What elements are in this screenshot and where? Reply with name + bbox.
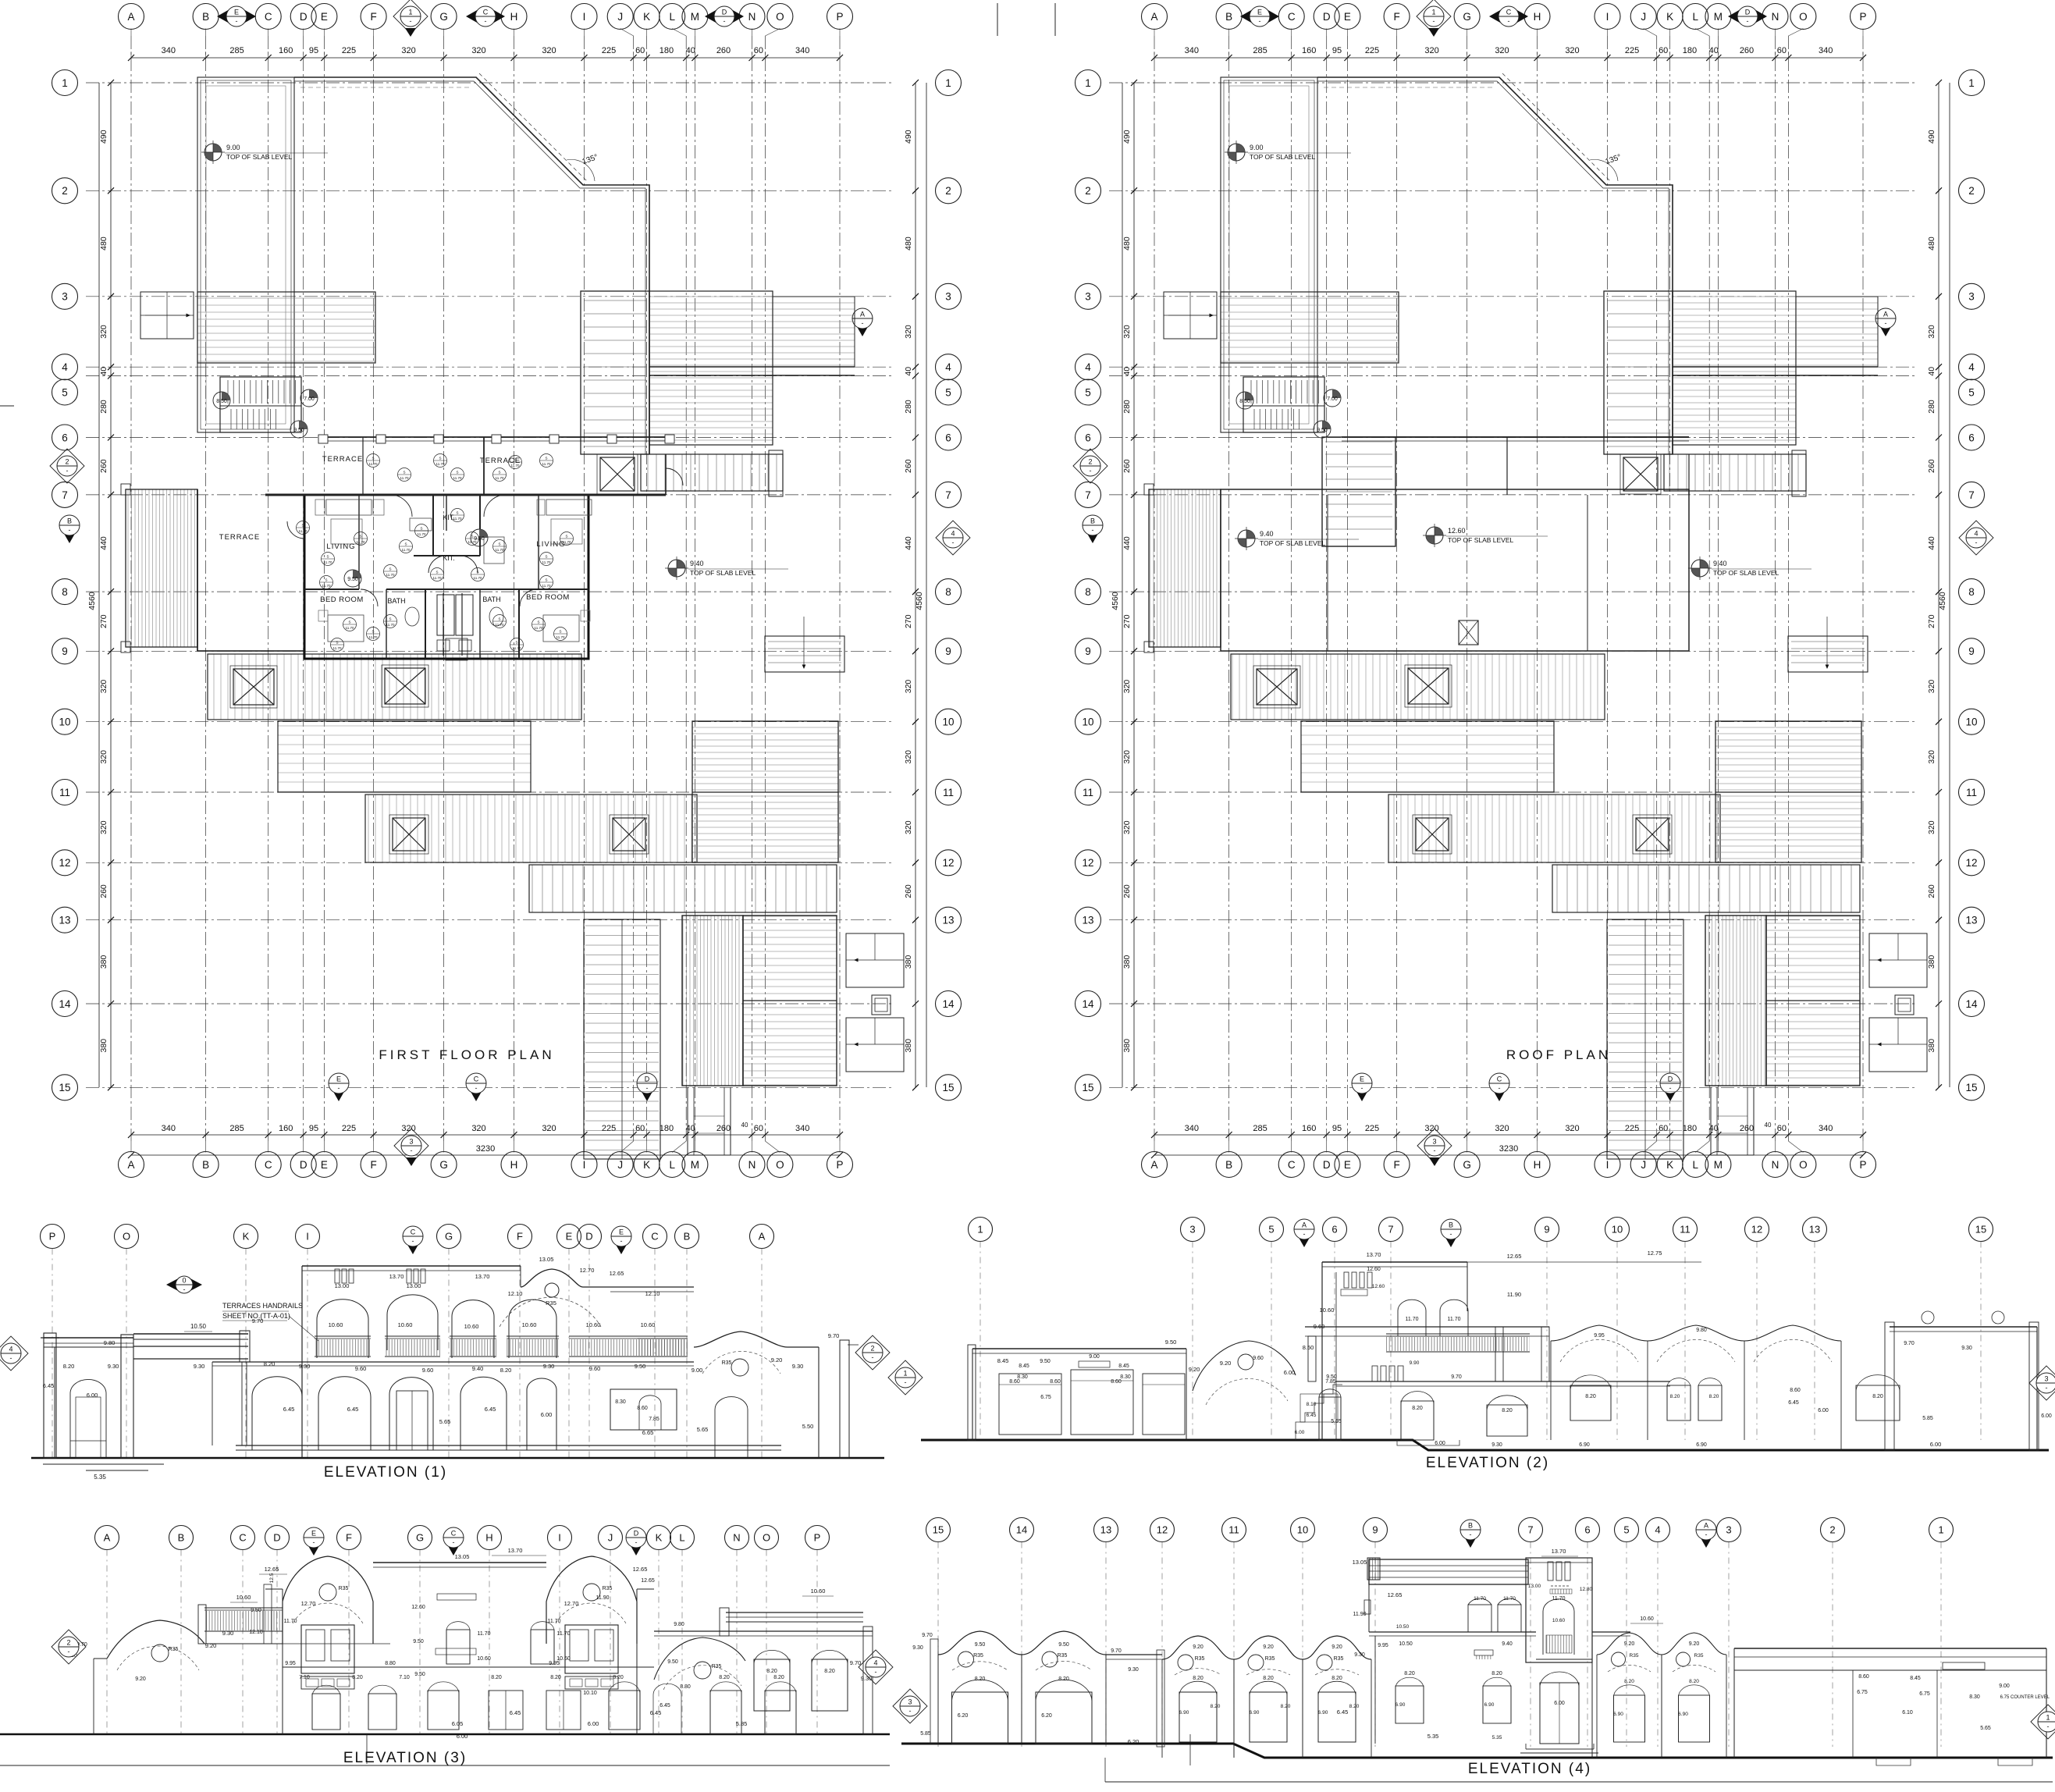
svg-text:-: - bbox=[2046, 1384, 2048, 1392]
svg-text:8.20: 8.20 bbox=[766, 1669, 777, 1674]
svg-text:12.75: 12.75 bbox=[1648, 1250, 1662, 1257]
svg-text:2: 2 bbox=[1088, 458, 1092, 466]
svg-text:8.20: 8.20 bbox=[1689, 1679, 1699, 1684]
svg-text:225: 225 bbox=[1625, 1124, 1639, 1133]
svg-text:ELEVATION (1): ELEVATION (1) bbox=[324, 1464, 447, 1481]
svg-text:8.20: 8.20 bbox=[1502, 1408, 1513, 1413]
dimension texts (elevation 4) bbox=[1128, 1708, 1439, 1745]
svg-text:6.75: 6.75 bbox=[1857, 1690, 1868, 1695]
svg-text:I: I bbox=[558, 1532, 561, 1544]
svg-text:8.20: 8.20 bbox=[491, 1675, 502, 1680]
svg-text:B: B bbox=[1090, 517, 1095, 525]
svg-text:9.70: 9.70 bbox=[1904, 1341, 1915, 1346]
svg-text:2: 2 bbox=[65, 458, 69, 466]
svg-text:9.50: 9.50 bbox=[1165, 1339, 1177, 1346]
apartment outer wall (first floor plan) bbox=[197, 454, 666, 659]
level circle 9.50 bedroom (first floor plan) bbox=[344, 570, 361, 587]
svg-text:D: D bbox=[1323, 1159, 1331, 1171]
svg-text:260: 260 bbox=[99, 459, 108, 473]
svg-text:8.20: 8.20 bbox=[1624, 1679, 1634, 1684]
living furniture east (first floor plan) bbox=[537, 500, 592, 544]
svg-text:5: 5 bbox=[1268, 1224, 1274, 1236]
left pilaster (elevation 1) bbox=[41, 1333, 59, 1458]
svg-text:2: 2 bbox=[1968, 185, 1975, 197]
stair level circle 8.50 (roof plan) bbox=[1236, 392, 1253, 409]
svg-text:-: - bbox=[1508, 17, 1510, 25]
svg-text:10.50: 10.50 bbox=[1396, 1624, 1410, 1630]
svg-text:11.70: 11.70 bbox=[284, 1619, 297, 1624]
left dimension lines (first floor plan) bbox=[87, 80, 114, 1090]
svg-text:14: 14 bbox=[59, 998, 71, 1010]
right block (elevation 2) bbox=[1885, 1311, 2052, 1450]
west terrace rows3-4 hatch (roof plan) bbox=[1221, 292, 1399, 363]
slab line (elevation 3) bbox=[283, 1661, 654, 1667]
svg-text:320: 320 bbox=[99, 680, 108, 694]
svg-text:260: 260 bbox=[1740, 1124, 1754, 1133]
svg-text:S: S bbox=[403, 471, 405, 475]
svg-text:380: 380 bbox=[904, 955, 913, 969]
svg-text:320: 320 bbox=[471, 1124, 485, 1133]
svg-text:480: 480 bbox=[99, 236, 108, 251]
svg-text:G: G bbox=[439, 11, 448, 23]
north-east band hatch (roof plan) bbox=[1796, 297, 1878, 367]
centre parapet (elevation 3) bbox=[373, 1547, 546, 1567]
svg-text:9: 9 bbox=[945, 645, 951, 657]
svg-text:11.70: 11.70 bbox=[535, 626, 543, 630]
svg-text:10: 10 bbox=[1082, 716, 1093, 728]
centre block parapet (elevation 1) bbox=[302, 1266, 521, 1458]
svg-text:-: - bbox=[1470, 1531, 1472, 1538]
svg-text:11.70: 11.70 bbox=[418, 532, 426, 536]
svg-text:13.05: 13.05 bbox=[539, 1256, 554, 1263]
svg-text:10: 10 bbox=[1612, 1224, 1623, 1236]
2F arch bay 3 (elevation 1) bbox=[452, 1300, 494, 1358]
svg-text:5.85: 5.85 bbox=[736, 1720, 748, 1727]
svg-text:8.20: 8.20 bbox=[63, 1363, 75, 1370]
svg-text:6.75: 6.75 bbox=[1919, 1691, 1930, 1697]
mid bay window 2 (elevation 4) bbox=[1250, 1676, 1291, 1742]
svg-text:11.70: 11.70 bbox=[453, 476, 462, 480]
svg-text:A: A bbox=[1883, 311, 1888, 318]
svg-text:L: L bbox=[1692, 11, 1698, 23]
room label BATH west (first floor plan) bbox=[387, 597, 405, 605]
svg-text:11.70: 11.70 bbox=[402, 548, 411, 552]
svg-text:320: 320 bbox=[1565, 46, 1579, 55]
svg-text:M: M bbox=[691, 1159, 699, 1171]
svg-text:9.20: 9.20 bbox=[1189, 1366, 1200, 1373]
left dimension lines (roof plan) bbox=[1111, 80, 1137, 1090]
svg-text:3: 3 bbox=[1189, 1224, 1195, 1236]
svg-text:8.30: 8.30 bbox=[1017, 1374, 1028, 1380]
level marker 9.40 (first floor plan) bbox=[665, 556, 788, 580]
section marker E bottom (first floor plan) bbox=[329, 1073, 349, 1101]
row grid lines (roof plan) bbox=[1109, 83, 1918, 1087]
svg-text:11.70: 11.70 bbox=[299, 529, 308, 533]
svg-text:9.30: 9.30 bbox=[1491, 1442, 1502, 1448]
svg-text:8.20: 8.20 bbox=[550, 1675, 561, 1680]
left block windows (elevation 2) bbox=[999, 1354, 1185, 1435]
tower mid slab (elevation 4) bbox=[1369, 1616, 1663, 1659]
svg-text:ELEVATION (2): ELEVATION (2) bbox=[1426, 1455, 1549, 1471]
svg-text:F: F bbox=[370, 11, 376, 23]
svg-text:S: S bbox=[545, 457, 547, 460]
svg-text:11.70: 11.70 bbox=[357, 540, 365, 544]
left edge labels (elevation 4) bbox=[912, 1633, 938, 1744]
svg-text:8.20: 8.20 bbox=[1412, 1406, 1423, 1411]
svg-text:13.70: 13.70 bbox=[1367, 1251, 1381, 1258]
svg-text:4: 4 bbox=[945, 361, 951, 373]
small tower door (elevation 2) bbox=[1319, 1379, 1342, 1440]
section marker C bottom (first floor plan) bbox=[466, 1073, 486, 1101]
svg-text:11.70: 11.70 bbox=[433, 576, 442, 580]
svg-text:-: - bbox=[620, 1237, 623, 1245]
top-centre block outer wall (first floor plan) bbox=[294, 77, 649, 454]
svg-text:9: 9 bbox=[1085, 645, 1091, 657]
terrace slab line (elevation 1) bbox=[212, 1362, 694, 1366]
svg-text:60: 60 bbox=[635, 46, 645, 55]
svg-text:320: 320 bbox=[1424, 46, 1438, 55]
west terrace arm rows7-9 (first floor plan) bbox=[121, 484, 197, 652]
svg-text:6.00: 6.00 bbox=[1284, 1369, 1296, 1376]
svg-text:11.70: 11.70 bbox=[324, 560, 332, 564]
svg-text:S: S bbox=[372, 630, 374, 634]
svg-text:6.45: 6.45 bbox=[1307, 1413, 1317, 1418]
east stair rows8-9 (first floor plan) bbox=[765, 617, 844, 672]
svg-text:380: 380 bbox=[1927, 955, 1936, 969]
svg-text:8.20: 8.20 bbox=[1331, 1676, 1342, 1681]
svg-text:6.45: 6.45 bbox=[1337, 1708, 1349, 1716]
svg-text:A: A bbox=[1150, 1159, 1157, 1171]
svg-text:5.85: 5.85 bbox=[1922, 1416, 1933, 1421]
section marker 4 right (first floor plan) bbox=[936, 521, 970, 555]
svg-text:P: P bbox=[836, 11, 843, 23]
south band rows11-12 (roof plan) bbox=[1388, 795, 1720, 862]
main stair rows5-6 (first floor plan) bbox=[220, 377, 301, 432]
svg-text:9.40: 9.40 bbox=[1260, 530, 1274, 538]
svg-text:D: D bbox=[1745, 9, 1751, 16]
svg-text:13.00: 13.00 bbox=[407, 1282, 421, 1289]
svg-text:9.30: 9.30 bbox=[792, 1363, 804, 1370]
external stair A row3 (first floor plan) bbox=[140, 292, 194, 339]
svg-text:11: 11 bbox=[1083, 787, 1093, 798]
centre dashes (elevation 3) bbox=[411, 1594, 476, 1655]
svg-text:10.10: 10.10 bbox=[583, 1691, 597, 1696]
svg-text:7.00: 7.00 bbox=[304, 396, 315, 402]
svg-text:9.20: 9.20 bbox=[205, 1642, 217, 1649]
right bay window 1 (elevation 4) bbox=[1613, 1679, 1644, 1742]
svg-text:E: E bbox=[1360, 1076, 1364, 1083]
svg-text:8.60: 8.60 bbox=[1009, 1379, 1020, 1385]
svg-text:60: 60 bbox=[754, 46, 763, 55]
svg-text:270: 270 bbox=[1927, 614, 1936, 628]
svg-text:280: 280 bbox=[99, 400, 108, 414]
svg-text:R35: R35 bbox=[603, 1586, 613, 1591]
svg-text:1: 1 bbox=[977, 1224, 983, 1236]
svg-text:5: 5 bbox=[1968, 386, 1975, 398]
svg-text:9.70: 9.70 bbox=[850, 1659, 862, 1666]
svg-text:J: J bbox=[608, 1532, 613, 1544]
bevel dashed line (roof plan) bbox=[1502, 73, 1610, 181]
svg-text:13: 13 bbox=[1100, 1524, 1111, 1536]
arcade windows (elevation 2) bbox=[1570, 1375, 1900, 1448]
svg-text:40: 40 bbox=[686, 46, 695, 55]
svg-text:12: 12 bbox=[1082, 857, 1093, 869]
section marker A right (roof plan) bbox=[1875, 308, 1896, 336]
GF centre door (elevation 1) bbox=[396, 1391, 428, 1450]
svg-text:I: I bbox=[583, 11, 586, 23]
section marker C top (first floor plan) bbox=[466, 6, 505, 27]
south band rows9-10 (first floor plan) bbox=[208, 654, 581, 720]
svg-text:2: 2 bbox=[1085, 185, 1091, 197]
section marker B left (first floor plan) bbox=[59, 515, 80, 543]
left marker 3 (elevation 4) bbox=[893, 1689, 927, 1723]
mid bay window 1 (elevation 4) bbox=[1179, 1676, 1221, 1742]
svg-text:-: - bbox=[905, 1378, 907, 1386]
svg-text:9.30: 9.30 bbox=[299, 1363, 311, 1370]
svg-text:A: A bbox=[759, 1231, 766, 1243]
row4-5 slab edge (roof plan) bbox=[1673, 367, 1878, 375]
svg-text:I: I bbox=[306, 1231, 309, 1243]
svg-text:D: D bbox=[722, 9, 727, 16]
svg-text:11.70: 11.70 bbox=[369, 462, 378, 466]
svg-text:TOP OF SLAB LEVEL: TOP OF SLAB LEVEL bbox=[226, 153, 293, 161]
svg-text:12.65: 12.65 bbox=[641, 1578, 655, 1584]
svg-text:11.70: 11.70 bbox=[548, 1619, 561, 1624]
title ELEVATION (3) bbox=[343, 1750, 467, 1766]
svg-text:9.20: 9.20 bbox=[1193, 1644, 1203, 1650]
svg-text:12.10: 12.10 bbox=[249, 1630, 263, 1635]
stair flight I-J rows3-6 (first floor plan) bbox=[581, 291, 649, 454]
svg-text:225: 225 bbox=[1625, 46, 1639, 55]
svg-text:E: E bbox=[311, 1530, 316, 1538]
svg-text:11.70: 11.70 bbox=[542, 462, 551, 466]
roof slab edges (roof plan) bbox=[1221, 454, 1689, 651]
svg-text:5.50: 5.50 bbox=[802, 1423, 814, 1430]
svg-text:40: 40 bbox=[1765, 1122, 1772, 1129]
svg-text:12: 12 bbox=[1157, 1524, 1168, 1536]
svg-text:E: E bbox=[1344, 1159, 1351, 1171]
svg-text:-: - bbox=[475, 1084, 478, 1092]
svg-text:7.85: 7.85 bbox=[649, 1417, 660, 1422]
svg-text:11: 11 bbox=[1966, 787, 1977, 798]
right marker 1 (elevation 4) bbox=[2031, 1705, 2055, 1739]
svg-text:15: 15 bbox=[1975, 1224, 1986, 1236]
right arch bay 1 (elevation 4) bbox=[1597, 1633, 1662, 1758]
svg-text:10.60: 10.60 bbox=[1552, 1618, 1566, 1623]
svg-text:8.50: 8.50 bbox=[1239, 399, 1250, 404]
svg-text:3: 3 bbox=[409, 1138, 413, 1146]
svg-text:4: 4 bbox=[1085, 361, 1091, 373]
title FIRST FLOOR PLAN bbox=[379, 1047, 554, 1062]
svg-text:R35: R35 bbox=[1630, 1653, 1639, 1659]
svg-text:S: S bbox=[325, 578, 327, 582]
svg-text:320: 320 bbox=[99, 750, 108, 764]
section marker D top (first floor plan) bbox=[705, 6, 744, 27]
svg-text:13.70: 13.70 bbox=[508, 1547, 523, 1554]
svg-text:9.40: 9.40 bbox=[1502, 1641, 1513, 1647]
svg-text:4560: 4560 bbox=[1938, 592, 1947, 610]
right marker 2 (elevation 1) bbox=[855, 1335, 890, 1370]
svg-text:380: 380 bbox=[1122, 1039, 1132, 1053]
main stair rows5-6 (roof plan) bbox=[1243, 377, 1324, 432]
svg-text:320: 320 bbox=[99, 820, 108, 834]
column grid lines (first floor plan) bbox=[131, 36, 840, 1141]
svg-text:9: 9 bbox=[1968, 645, 1975, 657]
shaft X rows11-12 east (roof plan) bbox=[1633, 815, 1672, 854]
svg-text:9.30: 9.30 bbox=[912, 1645, 923, 1651]
grid bubbles (elevation 3) bbox=[95, 1526, 830, 1735]
svg-text:9.50: 9.50 bbox=[414, 1672, 425, 1677]
svg-text:13.70: 13.70 bbox=[475, 1273, 490, 1280]
svg-text:-: - bbox=[10, 1354, 12, 1362]
svg-text:15: 15 bbox=[59, 1082, 70, 1093]
svg-text:8.20: 8.20 bbox=[1670, 1394, 1680, 1399]
GF arch 4 (elevation 1) bbox=[460, 1377, 507, 1450]
east room rows10-12 (first floor plan) bbox=[692, 721, 838, 862]
svg-text:225: 225 bbox=[602, 1124, 616, 1133]
svg-text:I: I bbox=[583, 1159, 586, 1171]
svg-text:340: 340 bbox=[1185, 1124, 1199, 1133]
svg-text:13: 13 bbox=[1809, 1224, 1820, 1236]
right arched gable (elevation 1) bbox=[694, 1332, 819, 1376]
svg-text:6.90: 6.90 bbox=[1696, 1442, 1707, 1448]
svg-text:320: 320 bbox=[1495, 1124, 1509, 1133]
svg-text:1: 1 bbox=[1938, 1524, 1943, 1536]
svg-text:320: 320 bbox=[542, 1124, 556, 1133]
svg-text:10.60: 10.60 bbox=[586, 1321, 601, 1328]
svg-text:12.60: 12.60 bbox=[1372, 1284, 1385, 1289]
svg-text:490: 490 bbox=[1122, 130, 1132, 144]
svg-text:H: H bbox=[510, 1159, 518, 1171]
svg-text:9.70: 9.70 bbox=[252, 1317, 264, 1324]
svg-text:-: - bbox=[1669, 1084, 1672, 1092]
equipment box 1 (first floor plan) bbox=[846, 933, 904, 987]
svg-text:285: 285 bbox=[1253, 46, 1267, 55]
svg-text:10.60: 10.60 bbox=[329, 1321, 343, 1328]
2F balustrade 3 (elevation 1) bbox=[450, 1336, 496, 1356]
svg-text:4: 4 bbox=[1974, 530, 1978, 538]
svg-text:0: 0 bbox=[182, 1277, 186, 1285]
svg-text:O: O bbox=[1799, 1159, 1808, 1171]
svg-text:180: 180 bbox=[1683, 1124, 1697, 1133]
roof terrace parapet row6 (roof plan) bbox=[1342, 437, 1689, 441]
left bay window 2 (elevation 4) bbox=[1036, 1676, 1092, 1744]
svg-text:9.60: 9.60 bbox=[589, 1365, 601, 1372]
svg-text:-: - bbox=[1433, 17, 1435, 25]
svg-text:11.70: 11.70 bbox=[496, 476, 504, 480]
svg-text:6.45: 6.45 bbox=[660, 1703, 670, 1708]
bevel dashed line (first floor plan) bbox=[479, 73, 587, 181]
svg-text:6.45: 6.45 bbox=[485, 1406, 496, 1413]
svg-text:10.50: 10.50 bbox=[1399, 1641, 1413, 1647]
kitchen counters (first floor plan) bbox=[410, 518, 504, 564]
svg-text:14: 14 bbox=[1082, 998, 1094, 1010]
svg-text:9.90: 9.90 bbox=[1410, 1360, 1420, 1366]
svg-text:B: B bbox=[1449, 1221, 1453, 1229]
svg-text:7.10: 7.10 bbox=[299, 1675, 310, 1680]
svg-text:13: 13 bbox=[59, 915, 70, 926]
tower box (elevation 4) bbox=[1526, 1548, 1593, 1662]
east room rows10-12 (roof plan) bbox=[1715, 721, 1861, 862]
svg-text:A: A bbox=[127, 11, 134, 23]
svg-text:15: 15 bbox=[933, 1524, 944, 1536]
svg-text:8: 8 bbox=[62, 586, 68, 598]
svg-text:8.30: 8.30 bbox=[1969, 1694, 1980, 1700]
svg-text:160: 160 bbox=[1302, 46, 1316, 55]
centre window 1 (elevation 3) bbox=[446, 1622, 491, 1664]
svg-text:-: - bbox=[1885, 319, 1887, 327]
svg-text:8.20: 8.20 bbox=[824, 1669, 835, 1674]
svg-text:6.20: 6.20 bbox=[958, 1713, 969, 1719]
svg-text:95: 95 bbox=[309, 46, 318, 55]
right windows (elevation 3) bbox=[754, 1650, 848, 1711]
svg-text:8.20: 8.20 bbox=[975, 1676, 986, 1682]
svg-text:9: 9 bbox=[1372, 1524, 1378, 1536]
svg-text:C: C bbox=[474, 1076, 479, 1083]
svg-text:4560: 4560 bbox=[87, 592, 97, 610]
svg-text:11.70: 11.70 bbox=[542, 584, 551, 588]
section marker 2 left (roof plan) bbox=[1073, 449, 1107, 483]
svg-text:440: 440 bbox=[904, 536, 913, 550]
room label KIT lower (first floor plan) bbox=[443, 554, 455, 562]
svg-text:8.20: 8.20 bbox=[1193, 1676, 1203, 1681]
svg-text:440: 440 bbox=[99, 536, 108, 550]
svg-text:60: 60 bbox=[1777, 46, 1787, 55]
marker 0 above pergola (elevation 1) bbox=[166, 1276, 202, 1293]
svg-text:C: C bbox=[451, 1530, 457, 1538]
tower balcony band (elevation 2) bbox=[1305, 1327, 1549, 1381]
svg-text:-: - bbox=[410, 17, 412, 25]
svg-text:270: 270 bbox=[904, 614, 913, 628]
svg-text:3: 3 bbox=[1085, 291, 1091, 303]
svg-text:7: 7 bbox=[1388, 1224, 1393, 1236]
svg-text:6.00: 6.00 bbox=[1554, 1701, 1565, 1706]
svg-text:8.20: 8.20 bbox=[1281, 1704, 1291, 1709]
svg-text:8.20: 8.20 bbox=[1349, 1704, 1360, 1709]
svg-text:-: - bbox=[2047, 1723, 2050, 1730]
svg-text:D: D bbox=[585, 1231, 592, 1243]
svg-text:380: 380 bbox=[99, 955, 108, 969]
svg-text:11.70: 11.70 bbox=[556, 635, 565, 639]
svg-text:7.85: 7.85 bbox=[1325, 1379, 1336, 1385]
svg-text:10: 10 bbox=[942, 716, 954, 728]
svg-text:340: 340 bbox=[1819, 46, 1833, 55]
left marker 4 (elevation 1) bbox=[0, 1336, 28, 1371]
svg-text:9.70: 9.70 bbox=[922, 1633, 933, 1638]
level line 12.65 (elevation 2) bbox=[1465, 1261, 1701, 1263]
ground line (elevation 1) bbox=[31, 1458, 884, 1481]
far right block (elevation 4) bbox=[1734, 1648, 2050, 1765]
svg-text:6.00: 6.00 bbox=[1295, 1430, 1305, 1435]
shaft X rows11-12 west (first floor plan) bbox=[389, 815, 428, 854]
svg-text:6.65: 6.65 bbox=[642, 1429, 654, 1436]
top-centre block outer wall (roof plan) bbox=[1317, 77, 1673, 454]
svg-text:8.20: 8.20 bbox=[1491, 1671, 1502, 1676]
svg-text:6: 6 bbox=[1584, 1524, 1590, 1536]
svg-text:8.60: 8.60 bbox=[1790, 1388, 1801, 1393]
svg-text:9.60: 9.60 bbox=[1314, 1323, 1325, 1330]
svg-text:1: 1 bbox=[1085, 77, 1091, 89]
entry walkway stair (first floor plan) bbox=[584, 919, 660, 1159]
svg-text:11: 11 bbox=[943, 787, 954, 798]
svg-text:225: 225 bbox=[1365, 1124, 1379, 1133]
svg-text:11.70: 11.70 bbox=[1503, 1596, 1516, 1602]
svg-text:6.45: 6.45 bbox=[283, 1406, 295, 1413]
shaft X rows6 (first floor plan) bbox=[597, 454, 638, 494]
svg-text:G: G bbox=[1463, 1159, 1471, 1171]
svg-text:E: E bbox=[234, 9, 239, 16]
svg-text:6.90: 6.90 bbox=[1395, 1702, 1406, 1708]
